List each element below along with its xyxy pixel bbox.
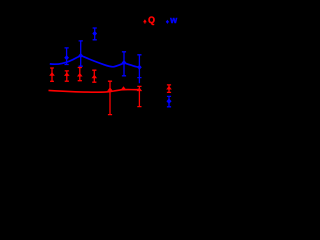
svg-text:w: w — [169, 15, 177, 25]
svg-text:Q: Q — [148, 15, 155, 25]
